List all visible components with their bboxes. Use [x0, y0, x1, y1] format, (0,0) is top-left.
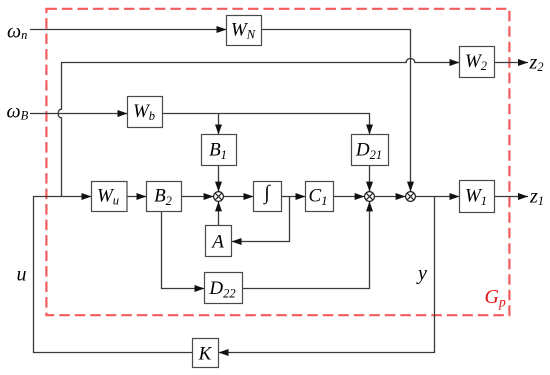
svg-text:u: u [17, 264, 27, 286]
block B_1 [202, 135, 237, 166]
block D_22 [205, 273, 243, 304]
dashed plant boundary G_p box [46, 9, 509, 315]
wire: integrator to C_1 [282, 196, 306, 198]
block K (controller) [193, 339, 219, 368]
summing junction S1 [214, 192, 224, 202]
svg-text:A: A [210, 231, 224, 252]
wire: S1 to integrator [223, 196, 253, 198]
block W_N [227, 16, 262, 46]
wire: W_N output to summing junction S3 [262, 30, 411, 192]
svg-text:y: y [416, 263, 427, 285]
wire: W_b output across to D_21 [163, 114, 370, 135]
wire: B_1 to summing junction S1 [218, 166, 220, 192]
block W_b [128, 97, 163, 128]
wire: C_1 to summing junction S2 [334, 196, 365, 198]
block A [206, 226, 232, 257]
wire: W_2 to z2 [495, 62, 529, 64]
block C_1 [306, 182, 334, 212]
wire: S3 to W_1 [415, 196, 459, 198]
summing junction S2 [365, 192, 375, 202]
wire: D_22 output to summing junction S2 [243, 201, 370, 288]
wire: y branch down to K [219, 197, 435, 353]
wire: K output u up to W_u [34, 197, 193, 353]
block integrator [254, 182, 282, 212]
wire: branch down to B_1 [218, 114, 220, 135]
wire: S2 to S3 [374, 196, 405, 198]
block W_2 [460, 47, 495, 78]
block W_1 [460, 181, 495, 213]
summing junction S3 [406, 192, 416, 202]
wire: B_2 branch down to D_22 [162, 212, 205, 289]
wire: omega_B to W_b [30, 113, 128, 115]
wire: omega_n to W_N [30, 29, 227, 31]
wire: state feedback to A [232, 197, 290, 242]
block D_21 [352, 135, 389, 166]
svg-text:K: K [198, 343, 213, 364]
wire: W_1 to z1 [495, 196, 529, 198]
wire: W_u to B_2 [127, 196, 147, 198]
wire: B_2 to summing junction S1 [182, 196, 214, 198]
block B_2 [147, 182, 182, 212]
block W_u [92, 182, 128, 212]
wire: D_21 to summing junction S2 [369, 166, 371, 192]
wire: A to summing junction S1 [218, 201, 220, 225]
wire: u branch up and across to W_2 (with hops) [58, 59, 459, 197]
